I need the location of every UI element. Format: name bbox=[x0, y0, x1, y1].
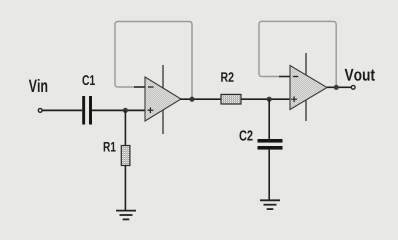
label R1 bbox=[104, 142, 116, 152]
wire junction down to R1 bbox=[124, 110, 126, 145]
wire feedback loop U1 bbox=[115, 22, 192, 99]
wire U1 output to R2 bbox=[181, 98, 222, 100]
wire junction down to C2 bbox=[268, 99, 270, 139]
wire minus pin stub U2 bbox=[279, 76, 291, 78]
capacitor C2 bbox=[258, 139, 283, 150]
wire top power pin U2 bbox=[305, 53, 307, 76]
resistor R2 bbox=[221, 94, 241, 104]
op-amp U1 bbox=[145, 77, 181, 121]
wire bottom power pin U2 bbox=[305, 100, 307, 121]
node junction input bbox=[123, 108, 128, 113]
node U1 output junction bbox=[189, 97, 194, 102]
capacitor C1 bbox=[82, 96, 92, 125]
op-amp U2 bbox=[290, 66, 327, 110]
terminal Vin bbox=[38, 109, 42, 113]
wire R2 to op-amp U2 plus input bbox=[241, 98, 291, 100]
wire C2 to ground bbox=[268, 150, 270, 200]
ground under C2 bbox=[260, 200, 280, 209]
node junction R2 C2 bbox=[267, 97, 272, 102]
label Vin bbox=[29, 79, 47, 92]
wire bottom power pin U1 bbox=[162, 110, 164, 134]
wire U2 output to Vout bbox=[327, 86, 351, 88]
label R2 bbox=[221, 72, 233, 82]
node U2 output junction bbox=[334, 85, 339, 90]
wire top power pin U1 bbox=[162, 65, 164, 88]
label Vout bbox=[345, 69, 375, 81]
wire Vin to C1 bbox=[42, 109, 82, 111]
wire feedback loop U2 bbox=[259, 21, 336, 86]
label C1 bbox=[82, 75, 94, 85]
wire C1 to op-amp U1 plus input bbox=[92, 109, 146, 111]
resistor R1 bbox=[121, 146, 130, 166]
wire R1 to ground bbox=[124, 166, 126, 211]
label C2 bbox=[239, 130, 252, 140]
ground under R1 bbox=[116, 211, 136, 220]
terminal Vout bbox=[351, 85, 355, 89]
wire minus pin stub U1 bbox=[134, 86, 146, 88]
